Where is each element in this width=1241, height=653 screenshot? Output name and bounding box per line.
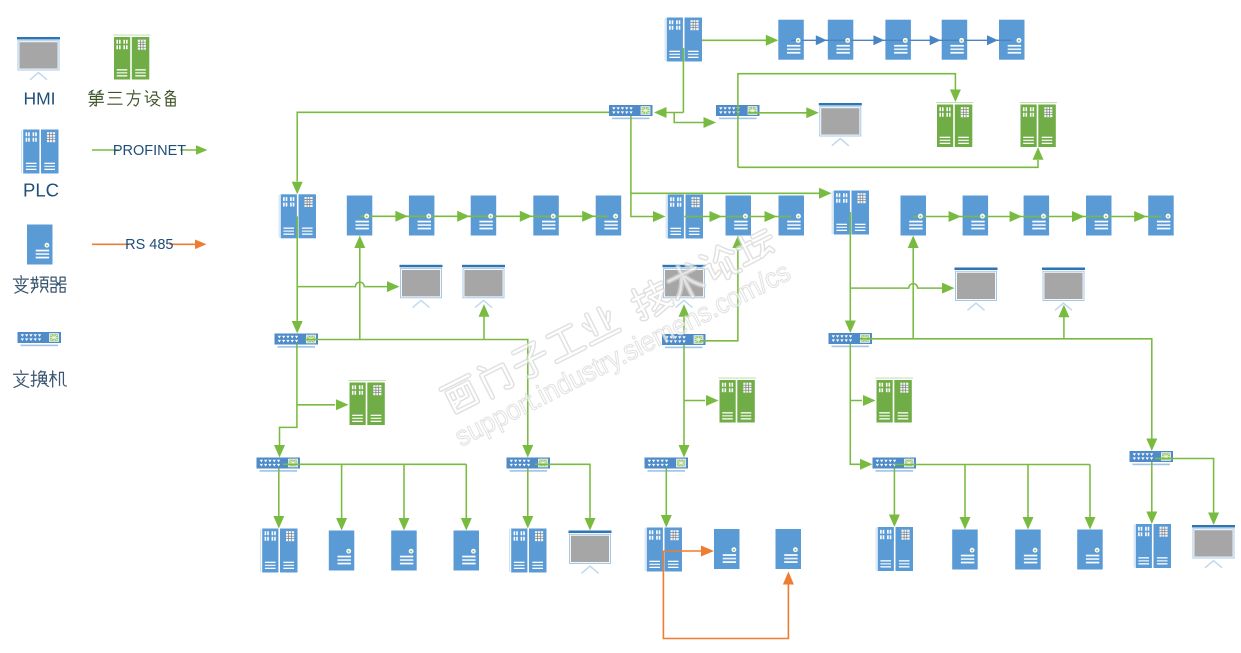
inverter T2 [828,20,854,60]
arrow into PLC 5 top [661,515,672,528]
arrow into HMI 6 bottom [1058,305,1069,318]
PLC D [260,529,297,573]
wire branch to HMI 5 with hop [850,284,942,289]
legend PLC icon [21,130,58,174]
inverter D1 [329,531,355,571]
switch G [645,458,689,472]
arrow into PLC 7 top [1146,512,1157,525]
wire RS485 PLC 5 to inverter RS-A [663,550,701,552]
arrow into third-party 2 [706,395,719,406]
wire switch H down, branch to third-party 3 [850,344,862,464]
legend RS485 wire [92,243,195,245]
wire PLC 2 to inverter 2-1 [684,216,738,218]
PLC 5 [645,528,682,572]
arrow into inverter D2 [399,518,410,531]
inverter 1-2 [409,196,435,236]
arrow into HMI 1 [387,281,400,292]
arrow into inverter 1-1 bottom [354,236,365,249]
arrow into inverter RS-B bottom [783,572,794,585]
legend RS485 arrow [195,240,207,250]
wire switch D to PLC D [278,469,280,517]
arrow into inverter J1 [960,517,971,530]
switch B [716,105,760,119]
wire switch F to inverter 2-1 feed [700,249,738,341]
svg-text:RS 485: RS 485 [125,237,173,253]
switch E [507,458,551,472]
wire switch D fan [283,464,466,518]
HMI 3 [663,265,706,308]
arrow into HMI E top [585,518,596,531]
wire HMI 2 feed [483,316,485,340]
inverter T5 [999,20,1025,60]
arrow into PLC 6 top [889,515,900,528]
wire switch C to switch E [305,340,528,446]
wire blue chain T1..T5 [791,39,1012,41]
arrow into HMI 2 bottom [479,304,490,317]
arrow into switch H top [845,321,856,334]
arrow into third-party 3 [863,395,876,406]
wire lower run to third-party T2 [738,160,1038,167]
arrow into inverter 3-4 [1072,211,1085,222]
arrow into inverter D3 [461,518,472,531]
arrow into inverter 1-2 [395,211,408,222]
legend switch label [14,370,29,387]
switch K [1130,451,1174,465]
third-party device 2 [719,378,757,423]
wire switch E to HMI E [535,464,590,518]
wire green chain 3 [913,216,1161,218]
inverter RS-A [714,529,740,569]
svg-text:PLC: PLC [23,180,59,201]
legend inverter icon [27,225,53,265]
legend PROFINET arrow [196,145,208,155]
svg-text:PROFINET: PROFINET [113,143,186,159]
wire switch G to PLC 5 [665,469,667,516]
arrow into third-party 1 [336,399,349,410]
inverter 2-1 [726,196,752,236]
wire switch H to switch K [860,339,1152,439]
inverter connection points [796,38,801,43]
arrow into switch E top [522,445,533,458]
switch C [275,334,319,348]
PLC 4 [832,191,869,235]
arrow into HMI top [806,107,819,118]
PLC E [509,529,546,573]
arrow into inverter 1-5 [582,211,595,222]
HMI 2 [462,265,505,308]
arrow into PLC E top [522,516,533,529]
inverter 1-1 [347,196,373,236]
arrow into switch C top [292,321,303,334]
wire green chain 1 [360,215,609,217]
inverter J2 [1015,530,1040,570]
inverter T4 [942,20,968,60]
arrow into inverter 3-5 [1134,211,1147,222]
arrow into PLC D top [273,516,284,529]
inverter 3-5 [1148,196,1174,236]
arrow into switch D top [274,445,285,458]
wire PLC top down [666,48,683,113]
HMI 1 [400,265,443,308]
wire PLC 1 down to switch C [296,216,298,321]
arrow into HMI 3 bottom [679,304,690,317]
PLC 7 [1134,524,1171,568]
PLC 2 [666,195,703,239]
wire switch J fan [894,465,1090,518]
inverter 3-4 [1086,196,1112,236]
PLC 6 [876,527,913,571]
arrow into HMI 5 [942,283,955,294]
arrow into PLC 1 top [292,182,303,195]
arrow into switch A [654,107,667,118]
inverter 1-3 [471,196,497,236]
inverter 2-2 [779,196,805,236]
wire switch A down with branches to PLC 4 and PLC 2 [631,116,820,217]
arrow into switch B [704,117,717,128]
wire PLC top to inverter T1 [702,39,777,41]
inverter D2 [391,531,417,571]
wire inverter 3-1 feed [912,248,914,339]
third-party device T2 [1020,102,1058,147]
wire HMI 6 feed [1063,317,1065,339]
arrow into inverter 2-1 [710,211,723,222]
inverter 3-3 [1024,196,1050,236]
wire switch K to PLC 7 [1151,462,1153,512]
inverter 1-4 [533,196,559,236]
arrow into switch G top [679,445,690,458]
inverter J1 [952,530,978,570]
arrow into HMI 4 top [1208,513,1219,526]
legend PROFINET wire [92,149,196,151]
arrow into inverter 3-2 [949,211,962,222]
inverter RS-B [776,529,802,569]
wire switch K to HMI 4 [1155,459,1214,513]
switch F [662,334,706,348]
legend third-party device icon [113,35,151,80]
arrow into inverter 3-1 bottom [908,236,919,249]
arrow into inverter T5 [987,35,998,45]
watermark [440,224,796,453]
inverter D3 [454,531,480,571]
HMI 6 [1042,268,1085,311]
HMI E [569,531,612,574]
arrow into third-party T2 bottom [1033,147,1044,160]
arrow into inverter 1-4 [520,211,533,222]
switch H [829,333,873,347]
legend third-party device label [89,90,104,106]
arrow into inverter J2 [1023,517,1034,530]
wire switch J to PLC 6 [893,469,895,515]
arrow into inverter 2-2 [765,211,778,222]
switch A [609,105,653,119]
inverter 3-2 [963,196,989,236]
wire switch F down, branch to third-party 2 [684,345,705,445]
legend switch icon [18,332,62,346]
arrow into PLC 4 [819,188,832,199]
arrow into inverter RS-A [701,546,714,557]
HMI top [819,103,862,146]
HMI 5 [955,268,998,311]
legend HMI icon [17,37,60,80]
arrow into inverter T3 [873,35,884,45]
wire switch A to PLC 1 [297,112,609,181]
wire switch F to HMI 3 [683,316,685,334]
PLC 1 [279,194,316,238]
third-party device 3 [876,378,914,423]
arrow into switch K top [1146,439,1157,452]
third-party device 1 [349,380,387,425]
inverter T1 [778,20,804,60]
wire jog to switch B [674,113,704,123]
third-party device T1 [936,102,974,147]
wire PLC 4 down to switch H [849,212,851,321]
wire switch B riser to third-party T1 [738,74,956,168]
arrow into inverter T1 [766,35,779,46]
svg-text:HMI: HMI [23,89,55,109]
wire branch to HMI 1 with hop [297,282,387,287]
inverter 3-1 [901,196,927,236]
inverter T3 [885,20,911,60]
arrow into inverter 3-3 [1010,211,1023,222]
arrow into inverter 1-3 [457,211,470,222]
inverter 1-5 [596,196,622,236]
arrow into inverter D1 [336,518,347,531]
arrow into PLC 2 [653,211,666,222]
wire switch C down, branch to third-party 1 [280,345,336,446]
arrow into third-party T1 top [950,90,961,103]
wire switch B to HMI top [748,112,807,114]
PLC top [665,18,702,62]
wire switch E to PLC E [527,469,529,517]
switch D [257,458,301,472]
arrow into inverter J3 [1085,517,1096,530]
wire inverter 2-1 to 2-2 [738,216,791,218]
legend inverter label [13,276,28,294]
switch J [873,458,917,472]
wire RS485 PLC 5 to inverter RS-B [663,551,788,639]
arrow into inverter T2 [816,35,827,45]
inverter J3 [1077,530,1103,570]
wire inverter 1-1 feed [359,248,361,340]
arrow into inverter T4 [930,35,941,45]
arrow into switch J [860,459,873,470]
HMI 4 [1192,525,1235,568]
arrow into inverter 2-1 bottom [732,236,743,249]
